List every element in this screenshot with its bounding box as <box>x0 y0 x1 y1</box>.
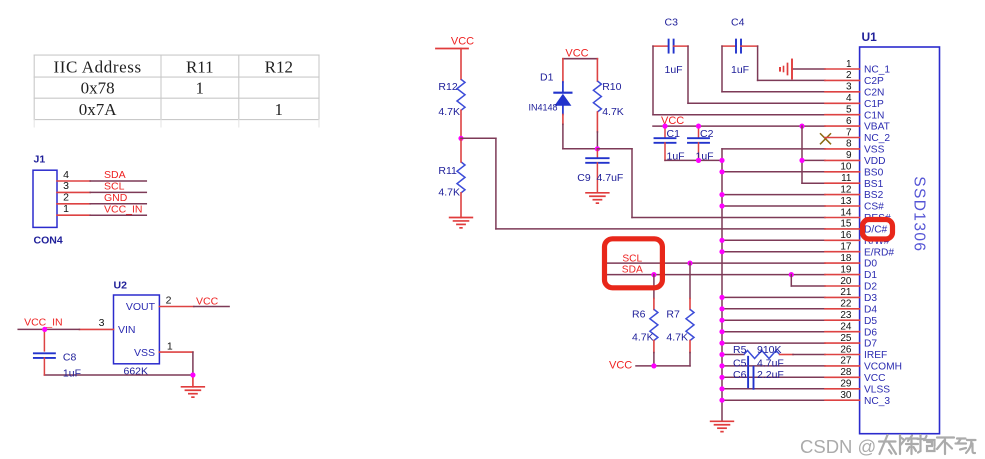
junction ground pin10 <box>719 169 724 174</box>
svg-text:U2: U2 <box>114 280 128 292</box>
U1 pin 20 (D2) <box>825 276 877 293</box>
capacitor C1 <box>655 126 685 163</box>
svg-text:3: 3 <box>63 180 69 192</box>
wire C4 right vertical <box>757 46 759 80</box>
junction C2 bottom <box>696 158 701 163</box>
svg-text:D4: D4 <box>864 304 877 315</box>
svg-text:910K: 910K <box>757 344 782 356</box>
wire ground to pin10 <box>722 171 825 173</box>
svg-text:C8: C8 <box>63 351 77 363</box>
svg-text:BS2: BS2 <box>864 190 884 201</box>
svg-text:IN4148: IN4148 <box>529 102 558 112</box>
svg-text:1uF: 1uF <box>731 64 749 76</box>
U1 pin 2 (C2P) <box>825 70 884 87</box>
U1 pin 1 (NC_1) <box>825 59 890 76</box>
connector J1 <box>33 154 63 247</box>
svg-text:15: 15 <box>840 219 852 230</box>
svg-text:VCC: VCC <box>565 47 588 59</box>
svg-text:9: 9 <box>846 150 852 161</box>
U1 pin 29 (VLSS) <box>825 379 890 396</box>
U1 pin 11 (BS1) <box>825 173 884 190</box>
resistor R6 <box>632 309 658 344</box>
U1 pin 4 (C1P) <box>825 93 884 110</box>
svg-text:4.7uF: 4.7uF <box>597 172 624 184</box>
wire VSS to ground <box>192 352 194 375</box>
pin7 no-ERC cross <box>821 134 831 144</box>
wire D1 anode down <box>562 115 564 125</box>
wire C3 right vertical <box>687 46 689 103</box>
svg-text:22: 22 <box>840 299 852 310</box>
svg-text:4: 4 <box>63 169 69 181</box>
svg-text:SCL: SCL <box>622 253 642 264</box>
svg-text:R11: R11 <box>438 165 457 177</box>
power port VCC (reset) <box>563 47 598 59</box>
wire net VCC_IN <box>90 214 146 216</box>
wire RESET right <box>597 148 632 150</box>
capacitor C4 <box>722 17 758 77</box>
U1 pin 7 (NC_2) <box>825 127 890 144</box>
svg-text:8: 8 <box>846 139 852 150</box>
J1 pin 1 <box>57 203 90 215</box>
junction VDD pin9 <box>799 158 804 163</box>
U1 pin 19 (D1) <box>825 264 877 281</box>
junction ground pin28 <box>719 375 724 380</box>
wire R12 to node <box>460 110 462 138</box>
wire DC vertical <box>495 138 497 229</box>
svg-text:6: 6 <box>846 116 852 127</box>
junction ground pin26 <box>719 352 724 357</box>
svg-text:20: 20 <box>840 276 852 287</box>
svg-text:19: 19 <box>840 264 852 275</box>
junction ground pin27 <box>719 363 724 368</box>
svg-text:VCC_IN: VCC_IN <box>24 316 63 328</box>
wire C1/C2 bottoms to ground rail <box>665 159 722 161</box>
svg-text:GND: GND <box>104 192 128 204</box>
svg-text:C6: C6 <box>733 369 747 381</box>
U1 pin 26 (IREF) <box>825 344 887 361</box>
wire ground to pin13 <box>722 205 825 207</box>
wire VCC rail to pin6 <box>653 125 825 127</box>
svg-text:29: 29 <box>840 379 852 390</box>
svg-text:4.7K: 4.7K <box>602 106 624 118</box>
svg-text:D1: D1 <box>540 71 554 83</box>
wire R7 bottom lead <box>689 341 691 353</box>
U2 pin 3 VIN <box>79 317 113 329</box>
U1 pin 3 (C2N) <box>825 82 884 99</box>
svg-text:4.7K: 4.7K <box>438 106 460 118</box>
svg-text:C4: C4 <box>731 17 745 29</box>
wire pin1 stub <box>792 68 825 70</box>
junction C1 top <box>662 124 667 129</box>
U1 pin 24 (D6) <box>825 322 877 339</box>
no-connect bars pin1 <box>780 60 792 79</box>
svg-text:26: 26 <box>840 344 852 355</box>
wire VSS pin8 <box>722 148 825 150</box>
wire DC to pin15 <box>496 228 825 230</box>
svg-text:25: 25 <box>840 333 852 344</box>
svg-text:1: 1 <box>196 79 205 98</box>
resistor R11 <box>438 162 465 199</box>
svg-text:SDA: SDA <box>622 264 643 275</box>
svg-text:VCC_IN: VCC_IN <box>104 203 143 215</box>
svg-text:C2N: C2N <box>864 87 884 98</box>
wire C4 left vertical <box>721 46 723 92</box>
U1 pin 14 (RES#) <box>825 207 891 224</box>
junction ground pin13 <box>719 203 724 208</box>
ground C9 <box>585 192 609 194</box>
svg-text:1uF: 1uF <box>63 368 81 380</box>
svg-text:C5: C5 <box>733 358 747 370</box>
svg-text:24: 24 <box>840 322 852 333</box>
J1 pin 3 <box>57 180 90 192</box>
wire C2P to pin2 <box>758 79 825 81</box>
wire ground to pin22 <box>722 308 825 310</box>
svg-text:23: 23 <box>840 310 852 321</box>
highlight box D/C# <box>863 220 893 240</box>
svg-text:D7: D7 <box>864 339 877 350</box>
ground U2 <box>181 386 205 388</box>
wire SDA branch to pin20 <box>791 285 825 287</box>
svg-text:21: 21 <box>840 287 852 298</box>
svg-text:NC_3: NC_3 <box>864 396 890 407</box>
svg-text:18: 18 <box>840 253 852 264</box>
capacitor C2 <box>688 126 714 163</box>
svg-text:SCL: SCL <box>104 181 125 193</box>
wire VCC from VOUT <box>194 306 229 308</box>
wire node to R11 <box>460 138 462 162</box>
wire VCC_IN to VIN <box>18 328 79 330</box>
svg-text:NC_2: NC_2 <box>864 133 890 144</box>
U2 pin 1 VSS <box>159 340 193 352</box>
capacitor C9 <box>577 149 623 192</box>
ground main rail <box>710 420 734 422</box>
svg-text:2.2uF: 2.2uF <box>757 369 784 381</box>
svg-text:D1: D1 <box>864 270 877 281</box>
U1 pin 6 (VBAT) <box>825 116 890 133</box>
U1 pin 18 (D0) <box>825 253 877 270</box>
svg-text:16: 16 <box>840 230 852 241</box>
svg-text:D2: D2 <box>864 282 877 293</box>
wire C3 left vertical <box>652 46 654 115</box>
svg-text:2: 2 <box>846 70 852 81</box>
U1 pin 9 (VDD) <box>825 150 886 167</box>
wire C8 bottom to ground junction <box>44 374 193 376</box>
diode D1 IN4148 <box>529 71 572 114</box>
U1 pin 13 (CS#) <box>825 196 884 213</box>
regulator U2 662K <box>114 280 160 378</box>
svg-text:C1N: C1N <box>864 110 884 121</box>
svg-text:VOUT: VOUT <box>126 301 156 313</box>
wire VCC to R12 <box>460 49 462 80</box>
junction R6 / VCC rail <box>651 363 656 368</box>
svg-text:13: 13 <box>840 196 852 207</box>
wire R6 bottom lead <box>653 341 655 353</box>
svg-text:VCC: VCC <box>864 373 886 384</box>
svg-text:CON4: CON4 <box>34 235 63 247</box>
svg-text:R12: R12 <box>265 57 293 76</box>
junction SDA / D2 branch <box>789 272 794 277</box>
wire VCC pullup rail <box>636 365 690 367</box>
svg-text:11: 11 <box>841 173 852 184</box>
U1 pin 16 (R/W#) <box>825 230 890 247</box>
svg-text:VIN: VIN <box>118 324 136 336</box>
resistor R5 910K <box>733 344 782 358</box>
junction ground pin23 <box>719 318 724 323</box>
svg-text:1: 1 <box>275 100 284 119</box>
wire net SDA <box>90 180 146 182</box>
wire IREF left segment <box>722 354 744 356</box>
svg-text:R10: R10 <box>602 81 621 93</box>
IIC address table <box>34 55 319 127</box>
junction VDD tap <box>799 124 804 129</box>
wire RESET vertical <box>631 149 633 218</box>
wire ground to pin16 <box>722 239 825 241</box>
svg-text:C2: C2 <box>700 128 714 140</box>
svg-text:NC_1: NC_1 <box>864 65 890 76</box>
U1 pin 27 (VCOMH) <box>825 356 902 373</box>
junction ground pin21 <box>719 295 724 300</box>
svg-text:28: 28 <box>840 367 852 378</box>
svg-text:D0: D0 <box>864 259 877 270</box>
junction D1/R10/C9/RESET <box>595 146 600 151</box>
svg-text:SSD1306: SSD1306 <box>911 176 928 252</box>
U1 pin 21 (D3) <box>825 287 877 304</box>
wire net SCL <box>90 191 146 193</box>
wire D1 to R10 bottom <box>563 148 598 150</box>
wire net SDA <box>607 274 825 276</box>
wire ground to pin30 <box>722 399 825 401</box>
wire ground to pin21 <box>722 296 825 298</box>
wire VCC to R10 <box>596 59 598 81</box>
wire net GND <box>90 203 146 205</box>
wire C1N to pin5 <box>653 114 825 116</box>
svg-text:2: 2 <box>63 192 69 204</box>
svg-text:IIC Address: IIC Address <box>53 57 141 76</box>
junction SCL / R7 <box>687 261 692 266</box>
junction ground pin25 <box>719 341 724 346</box>
wire ground to pin25 <box>722 342 825 344</box>
wire BS1 to pin11 <box>802 182 825 184</box>
U2 pin 2 VOUT <box>159 295 193 307</box>
U1 pin 22 (D4) <box>825 299 877 316</box>
wire VDD to pin9 <box>802 159 825 161</box>
junction VCC_IN / C8 <box>42 327 47 332</box>
svg-text:VCC: VCC <box>196 296 219 308</box>
svg-text:3: 3 <box>846 82 852 93</box>
wire ground to pin27 <box>722 365 825 367</box>
svg-text:VCC: VCC <box>609 360 632 372</box>
capacitor C8 <box>34 329 81 379</box>
svg-text:D3: D3 <box>864 293 877 304</box>
wire SDA to pin20 vertical <box>790 275 792 286</box>
svg-text:10: 10 <box>840 162 852 173</box>
svg-text:17: 17 <box>840 242 852 253</box>
svg-text:D5: D5 <box>864 316 877 327</box>
wire net SCL <box>607 262 825 264</box>
svg-text:SDA: SDA <box>104 169 126 181</box>
wire DC node right <box>461 137 496 139</box>
junction ground / C1C2 rail <box>719 158 724 163</box>
svg-text:C1P: C1P <box>864 99 884 110</box>
junction R12/R11/DC node <box>458 136 463 141</box>
svg-text:CS#: CS# <box>864 202 884 213</box>
svg-text:D6: D6 <box>864 327 877 338</box>
svg-text:3: 3 <box>99 317 105 329</box>
wire C1P to pin4 <box>688 102 825 104</box>
svg-text:BS1: BS1 <box>864 179 884 190</box>
U1 pin 12 (BS2) <box>825 184 884 201</box>
capacitor C5 4.7uF <box>733 357 784 388</box>
resistor R7 <box>666 309 694 344</box>
svg-text:D/C#: D/C# <box>864 225 888 236</box>
svg-text:C2P: C2P <box>864 76 884 87</box>
wire ground to pin24 <box>722 331 825 333</box>
wire ground to pin23 <box>722 319 825 321</box>
wire C2N to pin3 <box>722 91 825 93</box>
IC U1 SSD1306 body <box>860 30 940 434</box>
U1 pin 30 (NC_3) <box>825 390 890 407</box>
svg-text:CSDN @: CSDN @ <box>800 436 876 457</box>
junction ground pin30 <box>719 398 724 403</box>
svg-text:30: 30 <box>840 390 852 401</box>
junction SDA / R6 <box>651 272 656 277</box>
svg-text:BS0: BS0 <box>864 167 884 178</box>
svg-text:1uF: 1uF <box>665 64 683 76</box>
wire R10 to node <box>596 112 598 132</box>
U1 pin 17 (E/RD#) <box>825 242 894 259</box>
svg-text:C3: C3 <box>665 17 679 29</box>
U1 pin 28 (VCC) <box>825 367 886 384</box>
wire ground to pin12 <box>722 194 825 196</box>
resistor R12 <box>438 79 465 118</box>
svg-text:4: 4 <box>846 93 852 104</box>
svg-text:U1: U1 <box>862 30 878 44</box>
svg-text:4.7K: 4.7K <box>438 187 460 199</box>
svg-text:J1: J1 <box>34 154 46 166</box>
svg-text:1: 1 <box>63 203 69 215</box>
U1 pin 8 (VSS) <box>825 139 885 156</box>
junction ground pin12 <box>719 192 724 197</box>
svg-text:1: 1 <box>167 340 173 352</box>
wire R5 to pin26 <box>780 354 793 356</box>
junction C8 / U2 VSS / ground <box>190 372 195 377</box>
svg-text:R12: R12 <box>438 81 457 93</box>
svg-text:R7: R7 <box>666 309 680 321</box>
junction ground pin16 <box>719 238 724 243</box>
svg-text:VSS: VSS <box>864 145 885 156</box>
junction ground pin17 <box>719 249 724 254</box>
capacitor C6 2.2uF <box>733 367 784 389</box>
svg-text:27: 27 <box>840 356 852 367</box>
wire ground rail vertical <box>721 149 723 421</box>
wire VCC to D1 cathode <box>562 59 564 82</box>
svg-text:IREF: IREF <box>864 350 887 361</box>
wire ground to pin17 <box>722 251 825 253</box>
J1 pin 2 <box>57 192 90 204</box>
svg-text:2: 2 <box>166 295 172 307</box>
svg-text:R11: R11 <box>186 57 214 76</box>
svg-text:C1: C1 <box>667 128 681 140</box>
svg-text:VDD: VDD <box>864 156 886 167</box>
svg-text:0x78: 0x78 <box>81 79 115 98</box>
svg-text:C9: C9 <box>577 172 591 184</box>
wire ground stub U2 <box>192 375 194 387</box>
svg-text:VSS: VSS <box>134 347 155 359</box>
ground R11 <box>449 217 473 219</box>
U1 pin 25 (D7) <box>825 333 877 350</box>
svg-text:VLSS: VLSS <box>864 384 890 395</box>
wire RESET to pin14 <box>632 217 825 219</box>
svg-text:4.7K: 4.7K <box>666 332 688 344</box>
svg-text:R5: R5 <box>733 344 747 356</box>
wire ground to pin29 <box>722 388 825 390</box>
U1 pin 23 (D5) <box>825 310 877 327</box>
svg-text:E/RD#: E/RD# <box>864 247 894 258</box>
junction ground pin29 <box>719 386 724 391</box>
U1 pin 10 (BS0) <box>825 162 884 179</box>
resistor R10 <box>593 81 623 118</box>
U1 pin 15 (D/C#) <box>825 219 888 236</box>
wire R7 top lead <box>689 263 691 298</box>
svg-text:12: 12 <box>840 184 852 195</box>
svg-text:0x7A: 0x7A <box>79 100 118 119</box>
highlight box SCL/SDA <box>605 239 663 288</box>
power port VCC (left divider) <box>436 36 474 49</box>
J1 pin 4 <box>57 169 90 181</box>
junction ground pin22 <box>719 306 724 311</box>
wire VDD vertical <box>801 126 803 183</box>
U1 pin 5 (C1N) <box>825 105 884 122</box>
junction ground pin24 <box>719 329 724 334</box>
svg-text:VCOMH: VCOMH <box>864 362 902 373</box>
wire R11 to ground <box>460 193 462 218</box>
svg-text:5: 5 <box>846 105 852 116</box>
junction C2 top <box>696 124 701 129</box>
svg-text:14: 14 <box>840 207 852 218</box>
svg-text:1: 1 <box>846 59 852 70</box>
svg-text:7: 7 <box>846 127 852 138</box>
svg-text:VCC: VCC <box>451 36 474 48</box>
svg-text:4.7uF: 4.7uF <box>757 358 784 370</box>
capacitor C3 <box>653 17 688 77</box>
wire ground to pin28 <box>722 376 825 378</box>
svg-text:VBAT: VBAT <box>864 122 890 133</box>
svg-text:R6: R6 <box>632 309 646 321</box>
wire R6 top lead <box>653 275 655 299</box>
svg-text:4.7K: 4.7K <box>632 332 654 344</box>
